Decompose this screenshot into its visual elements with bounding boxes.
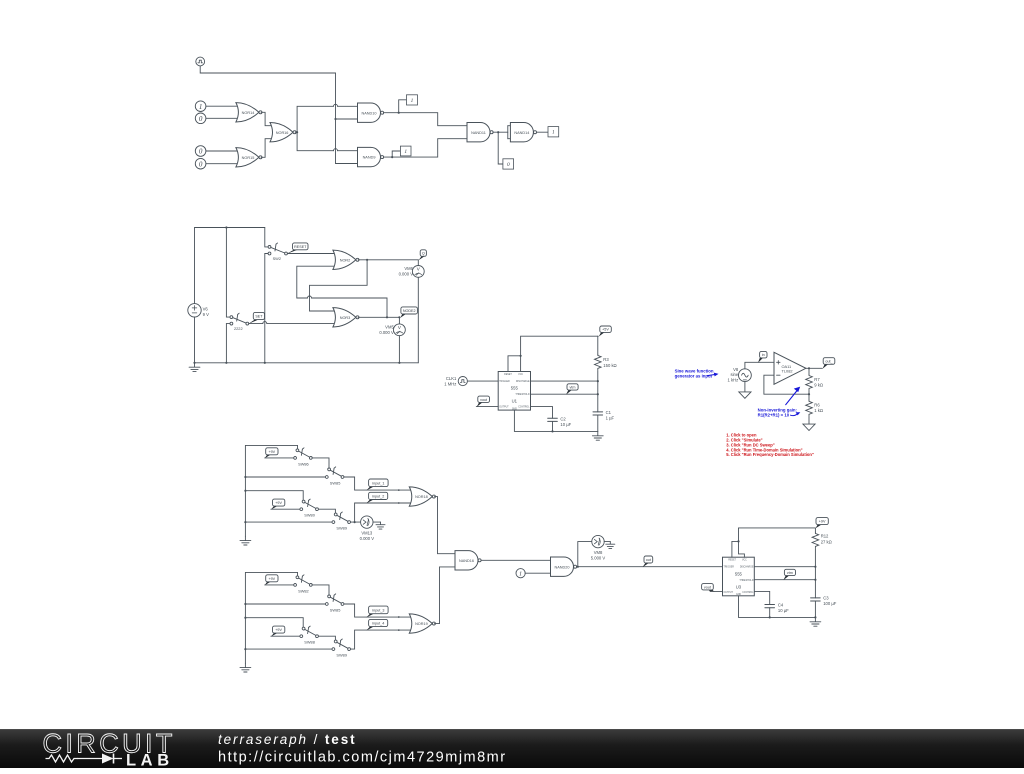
flag +9V (SW82) (265, 575, 278, 586)
svg-text:+9V: +9V (268, 577, 275, 581)
indicator box 1 (NAND10) (407, 95, 418, 105)
svg-text:+9V: +9V (268, 450, 275, 454)
wire VM6 to ground rail (417, 277, 419, 363)
wire SW85b common to NOR19 in1 (344, 604, 412, 618)
digital input 2 (logic 0) (195, 113, 206, 124)
wire rail2 to SW80 (245, 491, 303, 501)
wire U3 GND to bottom rail (739, 596, 817, 619)
svg-text:555: 555 (511, 386, 519, 391)
ground (VM8) (606, 542, 615, 549)
svg-text:OUTPUT: OUTPUT (499, 407, 509, 409)
voltmeter VM6 (399, 260, 425, 278)
svg-text:R6: R6 (814, 403, 820, 408)
wire +9V flag to SW88 throw (271, 635, 300, 637)
svg-text:+9V: +9V (275, 628, 282, 632)
svg-text:SW80: SW80 (304, 513, 315, 518)
flag Q (419, 250, 427, 260)
wire U1 OUTPUT stub (476, 406, 498, 408)
wire NOR16 out branch to NAND10 in1 (hop over clock line) (297, 104, 358, 132)
flag +9V (SW88) (271, 626, 285, 637)
svg-text:input_1: input_1 (372, 481, 384, 485)
wire SW89b common to NOR19 in2 (351, 629, 412, 649)
NOR gate NOR16 (270, 123, 296, 142)
svg-text:150 kΩ: 150 kΩ (603, 363, 616, 368)
switch SW89 (block B) (332, 639, 351, 658)
wire rail2 to SW88 (245, 618, 303, 628)
switch SW86 (294, 448, 313, 467)
wire VM5 to ground rail (398, 336, 400, 363)
wire NAND10 out with node (384, 100, 407, 114)
wire clock down to NAND9 in2 (336, 119, 359, 164)
node NAND20 output (577, 566, 723, 568)
svg-text:VM8: VM8 (594, 550, 603, 555)
flag vtm (U1) (566, 384, 578, 395)
svg-text:SW89: SW89 (336, 653, 347, 658)
svg-text:generator as input: generator as input (675, 373, 713, 378)
flag in (758, 351, 767, 362)
annotation: red instructions (726, 433, 814, 458)
wire rail to SW2 upper throw (265, 228, 268, 247)
flag +9V (SW80) (271, 499, 285, 510)
svg-text:V6: V6 (203, 307, 209, 312)
capacitor C2 10uF (548, 416, 572, 431)
wire V6 top rail (195, 226, 265, 303)
wire NAND11 out to NAND14 tied inputs (498, 126, 511, 139)
ground triangle (R6) (803, 424, 815, 430)
555 IC U3 (723, 557, 755, 596)
NOR gate NOR15 (236, 148, 262, 167)
wire inputs to NOR15 (206, 151, 239, 164)
svg-text:terraseraph / test: terraseraph / test (218, 732, 357, 747)
svg-text:NODE2: NODE2 (403, 309, 416, 313)
wire NOR14 out to NOR16 in1 (261, 112, 272, 125)
svg-text:27 kΩ: 27 kΩ (821, 539, 832, 544)
flag +9V (SW86) (265, 448, 278, 459)
svg-text:U1: U1 (512, 399, 518, 404)
svg-text:RESET: RESET (728, 560, 736, 562)
sine source V8 1kHz (727, 367, 751, 382)
555 IC U1 (498, 372, 530, 411)
capacitor C1 1uF (593, 410, 615, 432)
switch SW89 (332, 512, 351, 531)
svg-text:input_4: input_4 (372, 622, 384, 626)
svg-text:in: in (762, 353, 765, 357)
NAND gate NAND11 (467, 123, 493, 142)
switch 2222 (230, 313, 249, 331)
svg-text:CONTROL: CONTROL (742, 592, 754, 594)
svg-text:9 kΩ: 9 kΩ (814, 383, 823, 388)
svg-text:RESET: RESET (294, 245, 307, 249)
switch SW82 (294, 575, 313, 593)
voltmeter VM5 (379, 317, 405, 335)
svg-text:1 µF: 1 µF (606, 416, 615, 421)
svg-text:1 kHz: 1 kHz (727, 377, 738, 382)
wire ground rail to SW89b throw (245, 648, 332, 650)
ground rail vertical (block A) (244, 445, 246, 536)
wire NAND14 out to indicator (537, 131, 549, 133)
wire SW2 common to NOR2 in1 (288, 253, 335, 255)
wire U3 RESET jog (732, 541, 739, 557)
wire ground rail to SW85 throw (245, 476, 325, 478)
switch SW85 (block B) (325, 594, 344, 613)
NAND gate NAND9 (358, 147, 384, 166)
svg-text:SW86: SW86 (298, 461, 309, 466)
wire VM13 to ground (373, 521, 381, 523)
svg-text:NAND20: NAND20 (555, 565, 570, 569)
wire +9V flag to SW82 throw (265, 584, 294, 586)
svg-text:input_2: input_2 (372, 495, 384, 499)
capacitor C3 100uF (811, 580, 837, 618)
annotation arrow to feedback node (786, 387, 801, 405)
svg-text:R7: R7 (814, 377, 820, 382)
clock source CLK (top-left) (196, 57, 205, 66)
svg-text:CONTROL: CONTROL (518, 407, 530, 409)
indicator box 0 (NAND11) (503, 159, 514, 169)
svg-text:NOR15: NOR15 (242, 156, 255, 160)
svg-text:SW88: SW88 (304, 640, 315, 645)
svg-text:5.000 V: 5.000 V (591, 556, 606, 561)
wire U3 supply feed (737, 528, 744, 557)
svg-text:SW82: SW82 (298, 588, 309, 593)
NOR gate NOR18 (409, 487, 435, 506)
svg-text:C3: C3 (823, 596, 829, 601)
wire U1 CONTROL to C2 (531, 407, 553, 419)
NOR gate NOR3 (333, 308, 359, 327)
node NOR16 output (295, 131, 298, 133)
CircuitLab logo (43, 728, 176, 769)
svg-text:+5V: +5V (602, 328, 609, 332)
svg-text:1: 1 (199, 103, 203, 111)
wire NAND9 out to NAND11 in2 (392, 139, 467, 157)
svg-text:U3: U3 (736, 584, 742, 589)
svg-text:R1(R2+R1) = 10: R1(R2+R1) = 10 (758, 412, 790, 417)
wire NOR18 out to NAND16 in1 (435, 497, 457, 554)
svg-text:C1: C1 (606, 410, 612, 415)
svg-text:NOR19: NOR19 (415, 622, 428, 626)
svg-text:SW85: SW85 (330, 607, 341, 612)
node SW89 common (351, 521, 361, 523)
bottom ground rail (195, 362, 419, 364)
switch SW80 (300, 499, 319, 517)
flag SET (248, 312, 264, 324)
flag input_4 (366, 619, 387, 630)
svg-text:VCC: VCC (518, 374, 523, 376)
svg-text:NOR16: NOR16 (276, 131, 289, 135)
svg-text:NOR14: NOR14 (242, 111, 255, 115)
svg-text:VM13: VM13 (361, 531, 373, 536)
wire NOR15 out to NOR16 in2 (261, 139, 272, 158)
svg-text:TL082: TL082 (782, 369, 793, 374)
wire op-amp -in feedback loop (764, 375, 809, 394)
wire U1 THRESHOLD to R3 column (531, 393, 599, 395)
ground (U3 circuit) (810, 617, 821, 626)
svg-text:R3: R3 (603, 357, 609, 362)
resistor R3 150k (595, 336, 617, 381)
wire U1 VCC to +5V rail (520, 336, 599, 371)
NAND gate NAND10 (358, 103, 384, 122)
svg-text:C2: C2 (560, 416, 566, 421)
svg-text:555: 555 (735, 571, 743, 576)
wire ground rail to SW85b throw (245, 603, 325, 605)
svg-text:1: 1 (404, 149, 407, 155)
svg-text:1 kΩ: 1 kΩ (814, 408, 823, 413)
node NAND11 output (493, 131, 499, 133)
svg-text:NAND9: NAND9 (363, 156, 376, 160)
svg-text:DISCHARGE: DISCHARGE (740, 566, 754, 569)
svg-text:vtm: vtm (787, 571, 793, 575)
svg-text:NAND16: NAND16 (459, 559, 474, 563)
annotation: sine wave function generator as input (675, 368, 719, 378)
svg-text:vtm: vtm (570, 386, 576, 390)
flag input_2 (366, 492, 387, 503)
svg-text:1: 1 (411, 98, 414, 104)
svg-text:0: 0 (199, 115, 203, 123)
wire SW82 common to SW85b pivot (312, 585, 329, 596)
flag NODE2 (400, 307, 417, 318)
svg-text:out_: out_ (825, 360, 833, 364)
wire U1 RESET jog (508, 356, 521, 372)
switch SW2 (268, 243, 287, 261)
svg-text:1 MHz: 1 MHz (444, 382, 456, 387)
feedback NOR3 out to NOR2 in2 (hop) (297, 266, 387, 317)
svg-text:100 µF: 100 µF (823, 601, 837, 606)
svg-text:Q: Q (422, 252, 425, 256)
wire ground rail to SW89 throw (245, 521, 332, 523)
flag vout (U3) (702, 584, 715, 592)
indicator box 1 (NAND14) (548, 127, 559, 137)
wire U1 DISCHARGE to R3 column (531, 380, 599, 382)
flag RESET (287, 243, 308, 254)
wire V6 bottom to ground rail (194, 317, 196, 363)
svg-text:R12: R12 (821, 534, 829, 539)
digital input 1 (bottom) (516, 569, 525, 578)
svg-text:0: 0 (507, 162, 510, 168)
svg-text:THRESHOLD: THRESHOLD (739, 580, 754, 582)
wire top rail to SW82 (245, 572, 297, 576)
flag input_1 (366, 479, 388, 491)
wire U1 GND to bottom rail (514, 410, 597, 432)
svg-text:10 µF: 10 µF (778, 608, 789, 613)
flag +9V (U3) (816, 518, 829, 529)
wire SW86 common to SW85 pivot (312, 458, 329, 469)
NAND gate NAND20 (551, 557, 577, 576)
wire NAND11 out to indicator 0 (498, 132, 503, 164)
resistor R6 1k (806, 394, 823, 424)
wire CLK1 to U1 TRIGGER (467, 380, 498, 382)
svg-text:SW2: SW2 (273, 256, 281, 261)
resistor R7 9k (806, 368, 823, 394)
switch SW85 (325, 467, 344, 486)
svg-text:0.000 V: 0.000 V (399, 272, 414, 277)
svg-text:VM6: VM6 (404, 266, 413, 271)
capacitor C4 10uF (765, 603, 789, 618)
svg-text:0: 0 (199, 148, 203, 156)
footer title (218, 732, 507, 766)
node feedback junction (808, 393, 810, 395)
ground triangle (V8) (739, 392, 751, 398)
svg-text:VM5: VM5 (385, 325, 394, 330)
svg-text:DISCHARGE: DISCHARGE (516, 380, 530, 383)
wire NAND10 out to NAND11 in1 (399, 113, 468, 126)
voltage source V6 9V (188, 304, 209, 317)
wire clock to NAND column (200, 66, 335, 119)
ground rail vertical (block B) (244, 572, 246, 663)
wire inputs to NOR14 (206, 106, 239, 118)
wire node up to VM8 (578, 542, 592, 567)
svg-text:LAB: LAB (126, 751, 174, 769)
svg-text:http://circuitlab.com/cjm4729m: http://circuitlab.com/cjm4729mjm8mr (218, 750, 507, 766)
svg-text:SW89: SW89 (336, 526, 347, 531)
svg-text:9 V: 9 V (203, 312, 209, 317)
digital input 3 (logic 0) (195, 146, 206, 157)
svg-text:NAND11: NAND11 (471, 131, 486, 135)
svg-text:1: 1 (552, 130, 555, 136)
wire +9V flag to SW80 throw (271, 508, 300, 510)
flag input_3 (366, 606, 388, 617)
ground (block B) (240, 663, 251, 672)
wire SW88 common to SW89b pivot (318, 636, 335, 640)
op-amp OA11 TL082 (774, 352, 806, 384)
digital input 4 (logic 0) (195, 158, 206, 169)
svg-text:C4: C4 (778, 603, 784, 608)
ground (U1 circuit) (592, 431, 603, 440)
NAND gate NAND14 (510, 123, 536, 142)
indicator box 1 (NAND9) (400, 146, 411, 156)
svg-text:2222: 2222 (234, 326, 243, 331)
flag out (643, 556, 653, 567)
feedback NOR2 out to NOR3 in1 (310, 260, 368, 311)
wire top rail to SW86 (245, 445, 297, 449)
flag +5V (U1) (599, 326, 612, 337)
wire NOR19 out to NAND16 in2 (435, 567, 457, 624)
wire U3 CONTROL to C4 (754, 591, 769, 604)
wire op-amp out (806, 367, 822, 369)
svg-text:RESET: RESET (504, 374, 512, 376)
clock source CLK1 1MHz (444, 376, 467, 386)
svg-text:out: out (646, 558, 651, 562)
svg-text:OUTPUT: OUTPUT (724, 592, 734, 594)
wire vertical to 2222 upper throw (226, 228, 230, 318)
svg-text:+9V: +9V (819, 520, 826, 524)
wire top rail to +9V node (739, 527, 816, 529)
resistor R12 27k (812, 528, 832, 567)
svg-text:CLK1: CLK1 (446, 376, 457, 381)
ground (latch) (189, 362, 200, 372)
wire U3 OUTPUT stub (714, 590, 723, 592)
ground (VM13) (376, 522, 385, 529)
NAND gate NAND16 (455, 551, 481, 570)
wire NOR2 out to Q node (358, 259, 418, 261)
switch SW88 (300, 626, 319, 644)
flag out_ (823, 358, 835, 369)
svg-text:TRIGGER: TRIGGER (499, 381, 510, 383)
wire U3 THRESHOLD to R12 column (754, 567, 816, 581)
svg-text:NOR18: NOR18 (415, 495, 428, 499)
flag vout (U1) (477, 396, 490, 407)
wire V8 to ground (744, 382, 746, 392)
svg-text:NOR2: NOR2 (340, 258, 351, 262)
annotation: non-inverting gain (758, 407, 801, 417)
wire VM8 to ground (604, 541, 610, 543)
node clock to NAND10 in2 (334, 118, 358, 120)
wire SW85 common to NOR18 in1 (344, 477, 412, 491)
wire NAND16 out to NAND20 in1 (481, 559, 551, 561)
svg-text:vout: vout (480, 398, 487, 402)
wire node to NOR18 in2 (355, 502, 412, 522)
svg-text:VCC: VCC (742, 560, 747, 562)
svg-text:+9V: +9V (275, 501, 282, 505)
wire R3 column between nodes (597, 381, 599, 412)
svg-text:SET: SET (255, 315, 263, 319)
svg-text:vout: vout (704, 585, 711, 589)
svg-text:NOR3: NOR3 (340, 316, 351, 320)
wire V8 to op-amp +in (745, 362, 774, 369)
digital input 1 (logic 1) (195, 101, 206, 112)
wire +9V flag to SW86 throw (265, 457, 294, 459)
wire 2222 lower throw to ground rail (226, 324, 230, 363)
svg-text:0.000 V: 0.000 V (379, 330, 394, 335)
wire input to NAND20 in2 (525, 572, 551, 574)
svg-text:5. Click "Run Frequency-Domain: 5. Click "Run Frequency-Domain Simulatio… (726, 452, 814, 457)
wire NAND9 out with node (384, 151, 401, 158)
wire 2222 common to NOR3 in2 (hop at SW2 column) (249, 322, 334, 324)
svg-text:TRIGGER: TRIGGER (724, 567, 735, 569)
voltmeter VM8 (591, 535, 606, 560)
flag vtm (U3) (783, 569, 795, 580)
wire U3 DISCHARGE to R12 column (754, 566, 816, 568)
svg-text:NAND14: NAND14 (514, 131, 529, 135)
ground (block A) (240, 536, 251, 545)
NOR gate NOR2 (333, 250, 359, 269)
wire SW80 common to SW89 pivot (318, 509, 335, 513)
svg-text:input_3: input_3 (372, 609, 384, 613)
svg-text:SW85: SW85 (330, 480, 341, 485)
svg-text:0.000 V: 0.000 V (360, 536, 375, 541)
svg-text:1: 1 (519, 571, 522, 578)
wire SW2 lower throw to ground rail (hop over SET wire) (265, 254, 268, 363)
svg-text:10 µF: 10 µF (560, 422, 571, 427)
svg-text:THRESHOLD: THRESHOLD (515, 394, 530, 396)
wire NOR16 out branch to NAND9 in1 (hop over clock line) (297, 132, 358, 151)
NOR gate NOR19 (409, 614, 435, 633)
svg-text:NAND10: NAND10 (362, 111, 377, 115)
svg-text:0: 0 (199, 160, 203, 168)
footer bar (0, 729, 1024, 768)
wire NOR3 out with nodes (358, 316, 400, 318)
NOR gate NOR14 (236, 103, 262, 122)
voltmeter VM13 (360, 516, 375, 541)
